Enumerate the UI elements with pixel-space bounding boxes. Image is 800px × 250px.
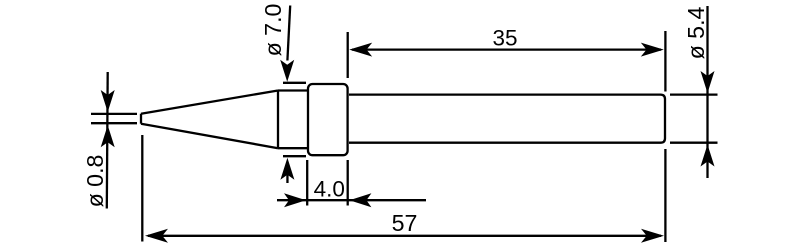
barrel top edge bbox=[278, 89, 308, 91]
extension line dia0.8 lower bbox=[91, 122, 137, 124]
dimension line 4.0 bbox=[277, 199, 426, 201]
extension line dia0.8 upper bbox=[91, 113, 137, 115]
svg-text:ø 0.8: ø 0.8 bbox=[82, 155, 108, 208]
dimension line 57 bbox=[148, 235, 661, 237]
svg-text:35: 35 bbox=[492, 25, 517, 50]
collar rounded rect bbox=[308, 84, 348, 155]
extension line 4.0 left bbox=[306, 160, 308, 206]
svg-text:4.0: 4.0 bbox=[314, 176, 345, 201]
cone top edge bbox=[141, 91, 278, 114]
arrowhead dia5.4 down bbox=[701, 71, 715, 93]
leader dia0.8 bbox=[106, 72, 109, 209]
svg-text:ø 7.0: ø 7.0 bbox=[260, 4, 286, 57]
tick dia7.0 top bbox=[283, 82, 306, 84]
arrowhead 57 right bbox=[641, 229, 664, 243]
svg-text:57: 57 bbox=[392, 210, 418, 236]
arrowhead 57 left bbox=[145, 229, 168, 243]
leader dia7.0 bottom stub bbox=[286, 174, 288, 183]
arrowhead 35 left bbox=[349, 43, 372, 57]
arrowhead 4.0 rightward bbox=[284, 193, 306, 207]
arrowhead dia0.8 down bbox=[101, 90, 115, 112]
arrowhead 35 right bbox=[641, 43, 664, 57]
tick dia7.0 bottom bbox=[283, 155, 306, 157]
tick dia5.4 bottom bbox=[670, 142, 718, 144]
cone bottom edge bbox=[141, 124, 278, 149]
extension line 57 right bbox=[664, 149, 666, 242]
svg-text:ø 5.4: ø 5.4 bbox=[683, 6, 709, 59]
tick dia5.4 top bbox=[670, 93, 718, 95]
barrel bottom edge bbox=[278, 147, 308, 149]
arrowhead dia5.4 up bbox=[701, 145, 715, 167]
arrowhead 4.0 leftward bbox=[349, 193, 371, 207]
leader dia5.4 top bbox=[706, 6, 708, 178]
cone/cylinder joint line bbox=[277, 91, 279, 149]
extension line 57 left bbox=[141, 135, 143, 242]
leader dia7.0 top bbox=[287, 6, 290, 61]
extension line 4.0 right bbox=[347, 160, 349, 206]
arrowhead dia0.8 up bbox=[101, 125, 115, 147]
arrowhead dia7.0 down bbox=[280, 60, 294, 82]
dimension line 35 bbox=[352, 48, 661, 50]
extension line 35 right bbox=[664, 31, 666, 92]
arrowhead dia7.0 up bbox=[280, 158, 294, 180]
tip end face bbox=[140, 114, 142, 124]
main shaft outline bbox=[349, 95, 665, 143]
extension line 35 left bbox=[347, 32, 349, 78]
